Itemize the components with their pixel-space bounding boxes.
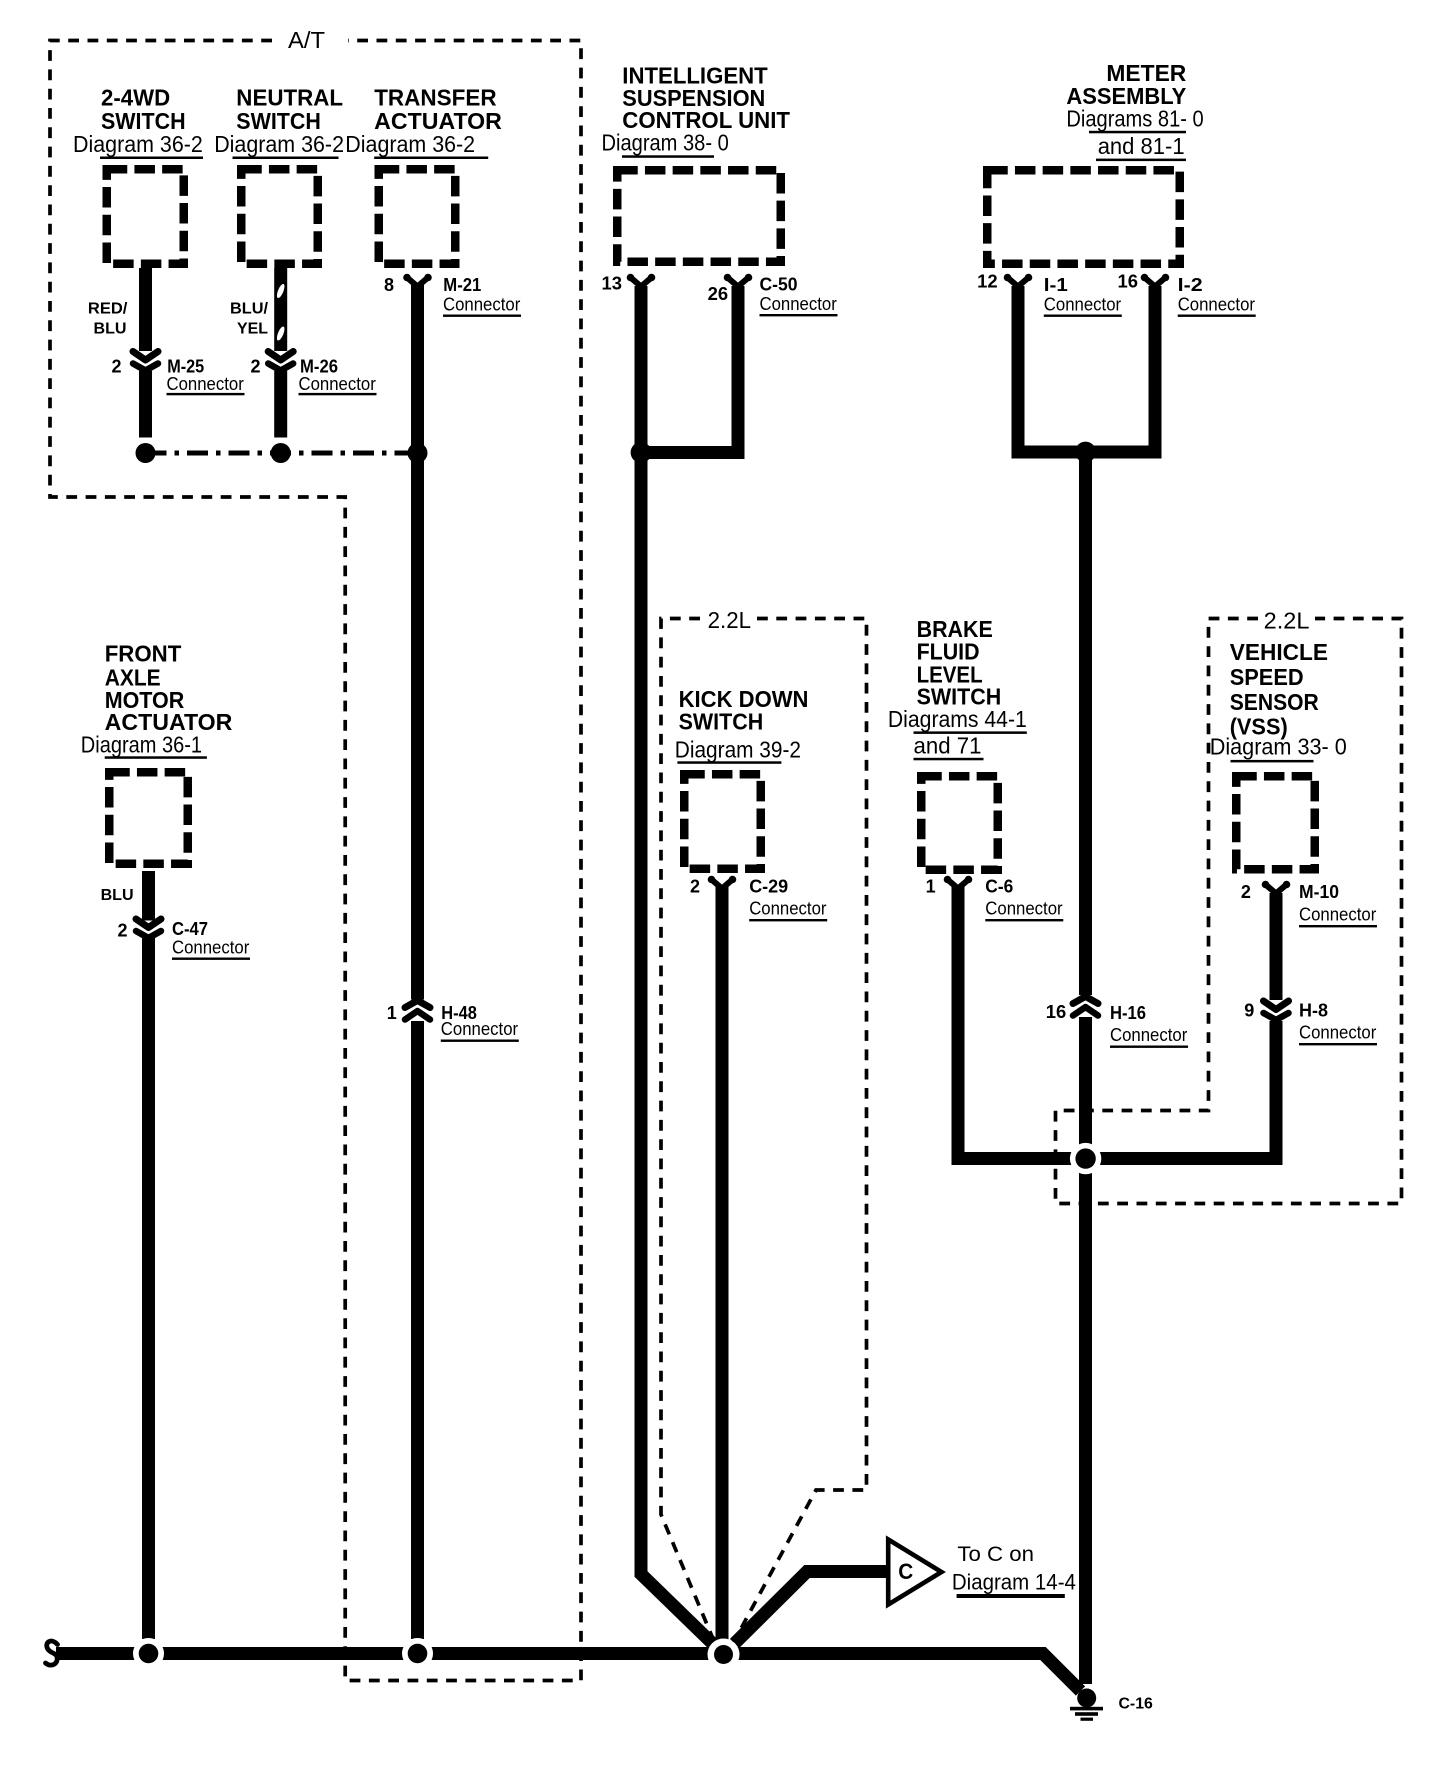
svg-text:Diagram 36-1: Diagram 36-1: [81, 731, 202, 757]
svg-text:FRONT: FRONT: [105, 641, 182, 667]
svg-text:16: 16: [1118, 272, 1139, 292]
svg-text:VEHICLE: VEHICLE: [1230, 639, 1328, 665]
svg-text:Diagram 33- 0: Diagram 33- 0: [1210, 734, 1347, 760]
svg-text:ACTUATOR: ACTUATOR: [374, 108, 502, 134]
svg-text:and 71: and 71: [914, 733, 982, 759]
svg-text:Connector: Connector: [1110, 1025, 1187, 1045]
svg-text:26: 26: [708, 284, 729, 304]
svg-text:C: C: [898, 1559, 913, 1584]
svg-text:BLU: BLU: [94, 321, 127, 338]
svg-text:Diagram 36-2: Diagram 36-2: [73, 131, 203, 157]
svg-text:12: 12: [977, 272, 998, 292]
svg-text:I-1: I-1: [1044, 275, 1068, 295]
svg-text:SENSOR: SENSOR: [1230, 689, 1319, 715]
svg-text:M-10: M-10: [1299, 882, 1339, 902]
svg-text:C-29: C-29: [749, 876, 788, 896]
svg-text:Connector: Connector: [1299, 1023, 1376, 1043]
svg-text:2: 2: [690, 876, 700, 896]
svg-text:Connector: Connector: [1299, 905, 1376, 925]
svg-text:8: 8: [384, 275, 394, 295]
svg-text:2: 2: [1241, 882, 1251, 902]
svg-text:Connector: Connector: [172, 938, 249, 958]
svg-text:SPEED: SPEED: [1230, 664, 1304, 690]
svg-text:2.2L: 2.2L: [1264, 608, 1310, 634]
svg-text:C-6: C-6: [985, 876, 1013, 896]
svg-text:TRANSFER: TRANSFER: [374, 84, 497, 110]
svg-text:Connector: Connector: [443, 295, 520, 315]
svg-text:BLU: BLU: [101, 887, 134, 904]
svg-text:Connector: Connector: [749, 899, 826, 919]
svg-text:Diagram 38- 0: Diagram 38- 0: [602, 129, 729, 155]
svg-text:Connector: Connector: [441, 1019, 518, 1039]
svg-text:2: 2: [112, 357, 122, 377]
svg-text:2-4WD: 2-4WD: [101, 84, 170, 110]
svg-text:Connector: Connector: [1178, 294, 1255, 314]
svg-text:and 81-1: and 81-1: [1098, 133, 1185, 159]
svg-text:YEL: YEL: [237, 321, 268, 338]
svg-text:Connector: Connector: [760, 294, 837, 314]
svg-text:SWITCH: SWITCH: [101, 108, 186, 134]
svg-text:Diagrams 44-1: Diagrams 44-1: [888, 706, 1027, 732]
svg-text:2.2L: 2.2L: [708, 607, 752, 633]
svg-text:Diagram 39-2: Diagram 39-2: [675, 736, 801, 762]
svg-text:Connector: Connector: [167, 374, 244, 394]
svg-text:Diagram 36-2: Diagram 36-2: [345, 131, 475, 157]
svg-text:H-16: H-16: [1110, 1003, 1146, 1023]
svg-text:Connector: Connector: [299, 374, 376, 394]
svg-text:9: 9: [1244, 1001, 1254, 1021]
svg-text:I-2: I-2: [1178, 275, 1203, 295]
svg-text:M-21: M-21: [443, 275, 481, 295]
svg-text:C-47: C-47: [172, 919, 208, 939]
svg-text:C-50: C-50: [760, 275, 798, 295]
svg-text:To C on: To C on: [957, 1543, 1034, 1566]
svg-text:H-8: H-8: [1299, 1001, 1328, 1021]
svg-text:Diagram 36-2: Diagram 36-2: [214, 131, 344, 157]
svg-text:Diagrams 81- 0: Diagrams 81- 0: [1066, 105, 1203, 131]
svg-text:2: 2: [251, 357, 261, 377]
svg-text:SWITCH: SWITCH: [679, 709, 764, 735]
svg-text:BLU/: BLU/: [230, 301, 269, 318]
svg-text:C-16: C-16: [1119, 1696, 1153, 1713]
svg-text:A/T: A/T: [288, 27, 325, 53]
svg-text:NEUTRAL: NEUTRAL: [236, 84, 343, 110]
svg-text:16: 16: [1046, 1002, 1067, 1022]
svg-text:1: 1: [387, 1003, 397, 1023]
svg-text:13: 13: [602, 273, 623, 293]
svg-text:SWITCH: SWITCH: [236, 108, 321, 134]
svg-text:RED/: RED/: [88, 301, 128, 318]
svg-text:1: 1: [926, 876, 936, 896]
svg-text:2: 2: [118, 920, 128, 940]
svg-text:Connector: Connector: [1044, 294, 1121, 314]
svg-text:Diagram 14-4: Diagram 14-4: [952, 1569, 1076, 1594]
svg-text:Connector: Connector: [985, 899, 1062, 919]
